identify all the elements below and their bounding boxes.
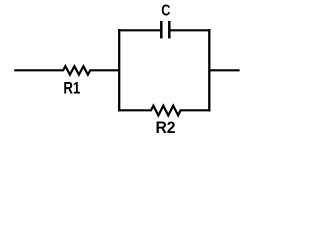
svg-text:C: C [161,2,171,20]
svg-text:R2: R2 [155,120,175,137]
svg-text:R1: R1 [63,81,80,98]
